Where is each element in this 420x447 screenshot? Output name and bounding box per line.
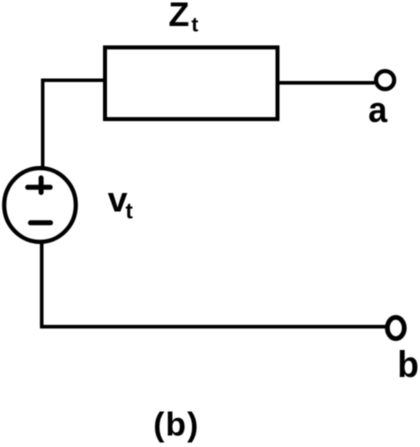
svg-text:t: t [126,199,134,224]
svg-text:t: t [191,14,198,36]
svg-text:a: a [368,89,388,130]
svg-text:b: b [397,344,419,385]
svg-text:(b): (b) [153,407,199,444]
svg-text:Z: Z [169,0,190,34]
